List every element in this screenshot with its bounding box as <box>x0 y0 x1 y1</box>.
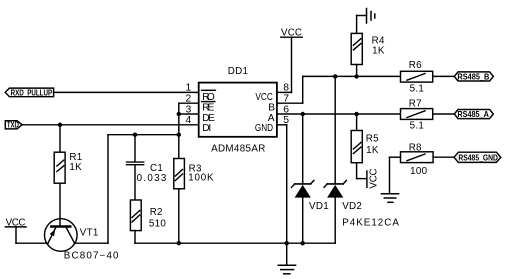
svg-text:VD1: VD1 <box>309 201 329 212</box>
wire B line <box>303 75 401 77</box>
pin 5 number <box>283 115 289 126</box>
svg-text:RS485_GND: RS485_GND <box>458 152 498 162</box>
svg-text:TXD: TXD <box>7 120 19 130</box>
junction node/R3 <box>177 133 181 137</box>
pin 2 number <box>186 94 192 105</box>
net flag RS485_B <box>454 71 493 81</box>
wire R8 left to ground <box>390 157 401 194</box>
wire R7 to tag <box>433 113 455 115</box>
resistor R4 <box>351 33 362 76</box>
svg-text:1K: 1K <box>366 145 379 156</box>
IC DD1 refdes label <box>228 66 249 77</box>
svg-text:R6: R6 <box>409 60 422 71</box>
label R8 <box>409 143 428 177</box>
wire pin 7 to B line <box>277 76 303 103</box>
ground rail wire <box>135 242 335 244</box>
svg-text:VCC: VCC <box>255 92 272 103</box>
junction A/R5 <box>354 112 358 116</box>
junction RE-DE tie on pin3 <box>177 112 181 116</box>
net flag RS485_GND <box>454 152 501 162</box>
wire TXD to pin 4 (DI) <box>22 124 199 126</box>
label VD2 <box>342 201 362 212</box>
pin 3 stub wire <box>179 113 199 115</box>
wire RE/DE tie vertical <box>178 103 180 135</box>
wire R6 to tag <box>433 75 455 77</box>
svg-text:510: 510 <box>149 218 166 229</box>
label R1 1K <box>69 152 82 173</box>
pin 1 number <box>186 83 192 94</box>
IC DD1 body <box>199 83 277 137</box>
wire RXD_PULLUP to pin 1 <box>54 91 199 93</box>
ground symbol right <box>381 194 398 203</box>
capacitor C1 <box>127 135 144 200</box>
svg-text:BC807−40: BC807−40 <box>64 251 119 262</box>
wire node to collector <box>75 135 109 244</box>
pin label DI <box>202 123 211 134</box>
pin 2 stub wire <box>179 102 199 104</box>
pin label B <box>268 103 275 114</box>
net flag RS485_A <box>454 109 493 119</box>
svg-text:100: 100 <box>410 166 427 177</box>
resistor R7 <box>401 109 433 120</box>
label VT1 <box>80 228 99 239</box>
label R7 <box>409 98 424 131</box>
ground symbol center <box>278 243 295 274</box>
svg-text:RS485_B: RS485_B <box>457 71 489 81</box>
svg-text:ADM485AR: ADM485AR <box>211 143 266 154</box>
svg-text:1K: 1K <box>372 46 385 57</box>
wire R8 to tag <box>433 156 454 158</box>
label P4KE12CA <box>342 217 399 228</box>
power flag VCC top <box>281 28 303 93</box>
svg-text:DI: DI <box>202 123 211 134</box>
svg-text:P4KE12CA: P4KE12CA <box>342 217 399 228</box>
IC DD1 part value ADM485AR <box>211 143 266 154</box>
wire A line <box>277 113 401 115</box>
svg-text:GND: GND <box>255 123 273 134</box>
label R2 510 <box>149 207 166 229</box>
junction rail/VD1 <box>301 241 305 245</box>
junction rail/GND pin <box>285 241 289 245</box>
wire VCC to emitter <box>16 242 48 244</box>
junction TXD/R1 <box>58 123 62 127</box>
pin label DE <box>202 113 215 124</box>
pin label GND <box>255 123 273 134</box>
pin label A <box>268 113 275 124</box>
wire pin 5 to ground <box>277 125 287 243</box>
svg-text:5.1: 5.1 <box>410 121 425 132</box>
svg-text:VCC: VCC <box>369 168 380 189</box>
resistor R5 <box>351 114 362 179</box>
pin 6 number <box>283 104 289 115</box>
svg-text:DD1: DD1 <box>228 66 249 77</box>
svg-text:100K: 100K <box>188 173 214 184</box>
resistor R2 <box>130 200 141 243</box>
pin label RE with overline <box>202 102 215 114</box>
TVS diode VD2 <box>324 76 346 243</box>
svg-text:0.033: 0.033 <box>137 173 167 184</box>
svg-text:5.1: 5.1 <box>410 83 425 94</box>
wire pin 8 to VCC <box>277 91 292 93</box>
svg-text:VD2: VD2 <box>342 201 362 212</box>
svg-text:R5: R5 <box>366 134 379 145</box>
junction A/VD1 <box>301 112 305 116</box>
label VD1 <box>309 201 329 212</box>
svg-text:R7: R7 <box>409 98 422 109</box>
pin 4 number <box>186 115 192 126</box>
label BC807-40 <box>64 251 119 262</box>
pin 3 number <box>186 104 192 115</box>
pin 7 number <box>283 94 289 105</box>
power flag VCC rotated (below R5) <box>357 168 380 189</box>
wire R4 to top ground <box>357 16 367 34</box>
ground symbol top (rotated) <box>367 9 375 24</box>
junction rail/R3 <box>177 241 181 245</box>
pin label VCC <box>255 92 272 103</box>
junction B/R4 <box>354 74 358 78</box>
label C1 0.033 <box>137 163 167 184</box>
transistor VT1 BC807-40 <box>45 219 78 252</box>
svg-text:1K: 1K <box>69 162 82 173</box>
net flag TXD <box>5 120 22 130</box>
label R6 <box>409 60 424 94</box>
junction B/VD2 <box>333 74 337 78</box>
resistor R6 <box>401 71 433 82</box>
pin 8 number <box>283 83 289 94</box>
svg-text:RS485_A: RS485_A <box>457 109 489 119</box>
label R4 1K <box>372 36 385 57</box>
net flag RXD_PULLUP <box>5 87 53 97</box>
svg-text:R8: R8 <box>409 143 422 154</box>
pin label RO with overline <box>202 90 216 103</box>
svg-text:RXD_PULLUP: RXD_PULLUP <box>11 87 53 97</box>
resistor R1 <box>54 125 65 226</box>
power flag VCC left <box>5 218 26 244</box>
junction node/C1 <box>133 133 137 137</box>
svg-text:B: B <box>268 103 275 114</box>
svg-text:RE: RE <box>202 103 214 114</box>
TVS diode VD1 <box>292 114 314 243</box>
resistor R8 <box>401 152 434 163</box>
svg-text:R2: R2 <box>150 207 163 218</box>
svg-text:VT1: VT1 <box>80 228 99 239</box>
resistor R3 <box>174 135 185 244</box>
node line (driver enable net) <box>108 134 179 136</box>
label R3 100K <box>188 163 214 183</box>
label R5 1K <box>366 134 379 156</box>
